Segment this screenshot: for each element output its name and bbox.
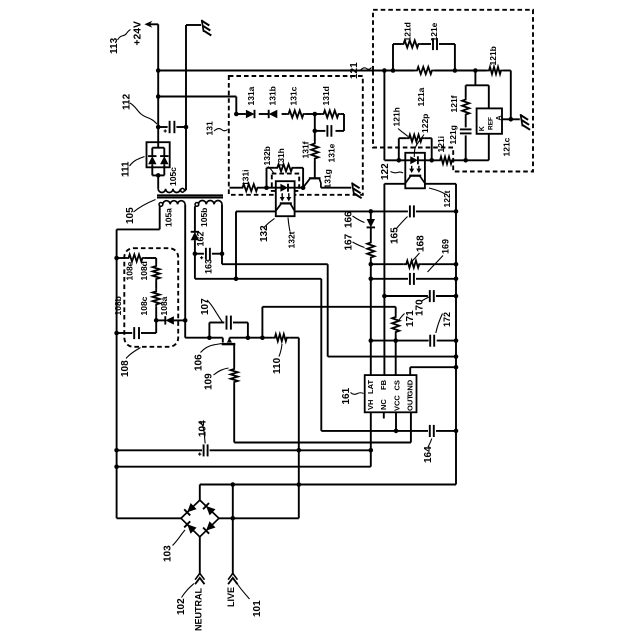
wire neutral drop — [199, 537, 201, 574]
wire 105b to 264 row — [222, 263, 328, 265]
svg-text:131i: 131i — [240, 169, 250, 186]
label 131c — [289, 86, 299, 105]
wire leader 132b — [268, 167, 274, 174]
wire 264-356 drop — [327, 264, 329, 356]
diode 162 — [191, 232, 199, 240]
wire leader 106 — [201, 344, 222, 353]
svg-text:171: 171 — [405, 310, 416, 327]
label 108e — [125, 261, 135, 280]
wire 121c right pin — [502, 118, 511, 120]
node junction 164-gnd — [454, 429, 459, 434]
diode 132 led — [280, 184, 288, 192]
wire left bus — [116, 229, 118, 518]
svg-text:131e: 131e — [326, 143, 336, 162]
rect 121h loop — [399, 138, 432, 160]
svg-text:K: K — [479, 126, 486, 131]
wire GND pin — [410, 367, 456, 375]
label 121d — [403, 22, 413, 41]
node junction 172-gnd — [454, 338, 459, 343]
wire leader 110 — [279, 344, 282, 357]
wire leader 132t — [288, 218, 290, 232]
svg-text:112: 112 — [122, 93, 133, 110]
wire 108 chain — [155, 258, 157, 320]
wire leader 104 — [201, 421, 206, 444]
wire 211 row left — [236, 211, 276, 278]
label 165 — [390, 227, 401, 244]
node junction 121c gnd — [509, 117, 514, 122]
label 121 — [349, 62, 360, 79]
bridge 103 diamond — [181, 500, 219, 537]
opto 122 transistor — [405, 176, 425, 184]
resistor 109 — [231, 367, 238, 385]
wire VCC row — [195, 278, 321, 280]
svg-text:131d: 131d — [321, 86, 331, 105]
wire top ground lead — [186, 24, 201, 26]
svg-text:121b: 121b — [488, 46, 498, 65]
svg-text:106: 106 — [194, 354, 205, 371]
capacitor 170 — [430, 290, 434, 302]
wire leader 122 — [391, 172, 404, 174]
svg-text:101: 101 — [252, 600, 263, 617]
wire 168 row — [371, 263, 456, 265]
resistor 131i — [240, 184, 260, 191]
node junction 163 left — [193, 251, 198, 256]
wire +24V lead — [147, 23, 158, 25]
svg-text:NEUTRAL: NEUTRAL — [194, 588, 204, 631]
resistor 121a — [415, 67, 435, 74]
node junction row70-454 — [453, 68, 458, 73]
resistor 131f — [311, 131, 318, 178]
node junction live-tap — [231, 482, 236, 487]
node junction row70-384 — [382, 68, 387, 73]
wire leader 113 — [118, 30, 131, 41]
svg-text:121c: 121c — [502, 137, 512, 156]
ground 121 — [521, 114, 531, 130]
wire OUT pin — [410, 412, 412, 442]
label K — [479, 126, 486, 131]
wire 211 row right — [295, 210, 456, 212]
wire 122 led in — [399, 159, 411, 161]
svg-text:165: 165 — [390, 227, 401, 244]
capacitor 121g — [460, 129, 472, 133]
label 105a — [164, 208, 174, 227]
svg-text:REF: REF — [488, 117, 495, 130]
node junction 167-278 — [369, 277, 374, 282]
label 132 — [259, 225, 270, 242]
label 172 — [442, 312, 452, 327]
diode 166 — [367, 219, 375, 227]
wire leader 132 — [264, 219, 275, 228]
wire gnd row — [200, 484, 456, 486]
node junction 131f top — [313, 129, 318, 134]
wire 111 internal top — [152, 142, 164, 156]
diode 103 tr — [203, 503, 215, 515]
label 169 — [440, 239, 450, 254]
diode pack 111 box — [147, 142, 170, 167]
shunt regulator 121c box — [477, 108, 502, 133]
pin label FB — [379, 379, 388, 390]
box 132b dashed — [272, 174, 299, 191]
label 166 — [344, 211, 355, 228]
diode 103 br — [203, 521, 215, 533]
label 170 — [415, 299, 426, 316]
capacitor 131e — [327, 125, 331, 137]
wire VCC pin — [395, 412, 397, 431]
wire leader 121h — [398, 129, 408, 137]
label 109 — [204, 373, 215, 390]
capacitor 112 — [158, 121, 186, 133]
wire 122 fb — [384, 184, 405, 375]
wire leader 105 — [134, 200, 156, 213]
svg-text:132b: 132b — [262, 146, 272, 165]
node junction 131h left — [264, 185, 269, 190]
wire 105a right leg — [184, 204, 186, 337]
wire 169 row — [371, 278, 456, 280]
label 112 — [122, 93, 133, 110]
label 131h — [276, 148, 286, 167]
wire leader 103 — [173, 530, 186, 546]
wire leader 109 — [214, 368, 229, 375]
wire 121c top pin — [488, 85, 490, 108]
terminal NEUTRAL chevrons — [195, 573, 204, 584]
wire GND rail — [455, 184, 457, 485]
wire 131d right leg — [336, 114, 345, 131]
resistor 121d — [401, 40, 421, 47]
wire leader 165 — [397, 217, 408, 229]
wire 132 led in — [267, 187, 282, 189]
node junction 356-gnd — [454, 354, 459, 359]
node junction 169-gnd — [454, 277, 459, 282]
resistor 131h — [275, 164, 295, 171]
node junction 167-264 — [369, 262, 374, 267]
label 122t — [442, 190, 452, 207]
label 131f — [300, 141, 310, 158]
label 171 — [405, 310, 416, 327]
svg-text:110: 110 — [272, 357, 283, 374]
svg-text:111: 111 — [121, 161, 132, 177]
label 108c — [139, 296, 149, 315]
label LIVE — [226, 587, 236, 607]
svg-text:163: 163 — [204, 259, 214, 274]
opto 122 arrows — [409, 166, 421, 173]
svg-text:121g: 121g — [448, 125, 458, 144]
svg-text:105b: 105b — [199, 208, 209, 227]
wire 167 chain down — [370, 260, 372, 375]
svg-text:122: 122 — [380, 163, 391, 180]
IC 161 box — [365, 375, 417, 412]
svg-text:108e: 108e — [125, 261, 135, 280]
resistor 131d — [321, 110, 341, 117]
node junction bus-VHrow — [114, 464, 119, 469]
label 162 — [195, 231, 205, 246]
opto 132 arrows — [280, 193, 292, 201]
label 108b — [113, 296, 123, 315]
wire bridge right — [219, 517, 299, 519]
wire 167 chain top — [370, 211, 372, 219]
svg-text:132t: 132t — [287, 231, 297, 248]
wire 131 top row — [236, 113, 344, 115]
resistor 168 — [404, 261, 422, 268]
resistor 108c — [153, 289, 160, 307]
wire leader 101 — [237, 584, 250, 600]
label 161 — [341, 387, 352, 404]
svg-text:107: 107 — [200, 298, 211, 315]
capacitor 104 — [198, 444, 208, 456]
label 122 — [380, 163, 391, 180]
svg-text:121h: 121h — [392, 107, 402, 126]
svg-text:108a: 108a — [159, 296, 169, 315]
wire 121i — [432, 159, 466, 161]
diode 111 left — [148, 156, 156, 164]
node junction bus-108b — [114, 331, 119, 336]
node junction 170-gnd — [454, 294, 459, 299]
svg-text:166: 166 — [344, 211, 355, 228]
wire 121 main row — [158, 70, 511, 72]
wire 132 led out — [288, 187, 304, 189]
svg-text:GND: GND — [406, 379, 415, 396]
label A — [496, 115, 503, 120]
wire bridge top stub — [199, 485, 201, 501]
wire leader 121 — [361, 68, 372, 71]
node junction 104-110 — [297, 448, 302, 453]
node junction 163 right — [220, 251, 225, 256]
wire 356 row — [328, 356, 456, 358]
svg-text:131a: 131a — [246, 86, 256, 105]
capacitor 163 — [195, 248, 222, 260]
svg-text:108: 108 — [120, 360, 131, 377]
label 131b — [268, 86, 278, 105]
node junction 131h right — [301, 185, 306, 190]
label 121b — [488, 46, 498, 65]
svg-text:164: 164 — [423, 446, 434, 463]
label 132t — [287, 231, 297, 248]
svg-text:131b: 131b — [268, 86, 278, 105]
wire leader 167 — [353, 242, 365, 248]
resistor 110 — [272, 334, 289, 341]
wire 108e row — [117, 257, 157, 259]
capacitor 108b — [134, 327, 139, 339]
wire bridge left — [117, 517, 181, 519]
diode 103 bl — [184, 521, 196, 533]
node junction 306 drop — [260, 335, 265, 340]
wire VH pin — [370, 412, 372, 466]
resistor 108d — [153, 264, 160, 282]
label 131d — [321, 86, 331, 105]
wire 131 feed row — [158, 97, 236, 115]
svg-text:LAT: LAT — [366, 380, 375, 394]
label 168 — [416, 235, 427, 252]
transistor 106 mosfet — [222, 338, 236, 367]
node junction 121h right — [429, 158, 434, 163]
svg-text:170: 170 — [415, 299, 426, 316]
capacitor 121e — [433, 38, 437, 50]
wire 104 row — [117, 449, 371, 451]
pin label NC — [379, 399, 388, 410]
resistor 121f — [462, 97, 469, 117]
node junction bus-104row — [114, 448, 119, 453]
wire 170 row — [384, 295, 456, 297]
svg-text:121e: 121e — [429, 22, 439, 41]
svg-text:131c: 131c — [289, 86, 299, 105]
label 121c — [502, 137, 512, 156]
pin label VCC — [392, 395, 401, 411]
node junction 111 out — [156, 173, 161, 178]
ground 131 — [352, 183, 362, 199]
node junction vh-104 — [369, 448, 374, 453]
label 107 — [200, 298, 211, 315]
node junction row70-475 — [473, 68, 478, 73]
wire fb top drop — [384, 71, 398, 161]
label 121f — [449, 95, 459, 112]
box 131 dashed — [229, 76, 363, 195]
wire leader 164 — [428, 439, 432, 448]
wire leader 107 — [207, 300, 223, 322]
wire 121b to gnd — [511, 71, 520, 120]
label 121h — [392, 107, 402, 126]
svg-text:VCC: VCC — [392, 395, 401, 411]
wire leader 169 — [428, 256, 444, 273]
node junction vcc pin — [394, 429, 399, 434]
node junction 121i right — [463, 158, 468, 163]
wire 122 to gnd rail — [425, 183, 456, 185]
label 131i — [240, 169, 250, 186]
label 106 — [194, 354, 205, 371]
svg-text:103: 103 — [163, 545, 174, 562]
winding 105c — [158, 175, 186, 192]
label REF — [488, 117, 495, 130]
node junction 168-gnd — [454, 262, 459, 267]
label 105 — [125, 207, 136, 224]
label 131e — [326, 143, 336, 162]
label 121g — [448, 125, 458, 144]
node junction live-bridge — [231, 516, 236, 521]
pin label OUT — [406, 395, 415, 411]
box 121 dashed — [373, 10, 533, 172]
node junction cap107 right — [246, 335, 251, 340]
transistor 131g — [303, 178, 321, 187]
node junction fb-170 — [382, 294, 387, 299]
wire 131i row — [230, 187, 267, 189]
ground top — [202, 20, 212, 36]
label 121a — [416, 87, 426, 106]
svg-text:109: 109 — [204, 373, 215, 390]
resistor 131c — [286, 110, 306, 117]
label 132b — [262, 146, 272, 165]
wire 166-167 — [370, 227, 372, 240]
wire leader 171 — [398, 314, 405, 323]
node junction vccrow-236 — [234, 277, 239, 282]
wire leader 108 — [126, 348, 141, 359]
resistor 171 — [392, 315, 399, 335]
wire 121de branch — [393, 44, 455, 71]
capacitor 165 — [410, 205, 414, 217]
capacitor 107 — [209, 316, 248, 338]
pin label LAT — [366, 380, 375, 394]
wire 105a left to bus — [117, 228, 160, 230]
svg-text:131g: 131g — [322, 169, 332, 188]
label 108 — [120, 360, 131, 377]
svg-text:122p: 122p — [420, 114, 430, 133]
wire 108b row — [117, 320, 157, 333]
wire 122 led out — [418, 159, 432, 161]
svg-text:121i: 121i — [436, 136, 446, 153]
svg-text:NC: NC — [379, 399, 388, 410]
wire 121g bottom — [465, 135, 467, 160]
label 104 — [198, 420, 209, 437]
wire leader 111 — [130, 157, 145, 167]
wire 131 gnd lead — [321, 187, 351, 189]
label 101 — [252, 600, 263, 617]
wire secondary return — [185, 25, 187, 190]
label 121i — [436, 136, 446, 153]
node junction rail-121row — [156, 68, 161, 73]
wire 306 row — [262, 307, 395, 338]
label 164 — [423, 446, 434, 463]
label 110 — [272, 357, 283, 374]
transformer 105 core — [157, 195, 223, 197]
svg-text:172: 172 — [442, 312, 452, 327]
diode 108a — [165, 316, 174, 324]
label 131 — [204, 121, 214, 135]
label 167 — [344, 233, 355, 250]
wire 171 chain — [395, 307, 397, 375]
wire 105b right leg — [221, 204, 223, 264]
resistor 108e — [126, 254, 145, 261]
diode 103 tl — [184, 503, 196, 515]
label 131g — [322, 169, 332, 188]
node junction 121h left — [397, 158, 402, 163]
wire leader 170 — [421, 297, 429, 302]
svg-text:108d: 108d — [139, 261, 149, 280]
wire 108a row — [156, 319, 185, 321]
node junction 108a right — [183, 318, 188, 323]
wire 111 internal bottom — [152, 164, 164, 175]
label 105b — [199, 208, 209, 227]
label 102 — [176, 598, 187, 615]
node junction gndpin — [454, 365, 459, 370]
label +24V — [133, 21, 144, 45]
node junction rail-cap112 — [156, 125, 161, 130]
resistor 121b — [487, 67, 504, 74]
opto 122 box — [405, 153, 425, 189]
wire leader 168 — [412, 253, 420, 262]
wire VCC drop — [320, 279, 322, 431]
label 131a — [246, 86, 256, 105]
svg-text:113: 113 — [109, 37, 120, 54]
svg-text:121d: 121d — [403, 22, 413, 41]
wire leader 102 — [182, 584, 195, 598]
node junction return-cap112 — [184, 125, 189, 130]
wire 121f tap — [466, 71, 489, 86]
node junction 211-gnd — [454, 209, 459, 214]
capacitor 164 — [430, 425, 434, 437]
svg-text:OUT: OUT — [406, 395, 415, 411]
wire VH row — [117, 466, 371, 468]
opto 132 box — [276, 181, 295, 216]
svg-text:131: 131 — [204, 121, 214, 135]
resistor 121h — [406, 135, 424, 142]
terminal LIVE chevrons — [228, 573, 237, 584]
label 113 — [109, 37, 120, 54]
wire +24V rail — [157, 24, 159, 142]
wire main row — [185, 337, 299, 339]
diode 122 led — [410, 156, 418, 164]
node junction cap107 left — [207, 335, 212, 340]
resistor 121i — [438, 157, 455, 164]
capacitor 172 — [430, 335, 434, 347]
node junction live-gnd row — [297, 482, 302, 487]
wire 340 row — [371, 340, 456, 342]
